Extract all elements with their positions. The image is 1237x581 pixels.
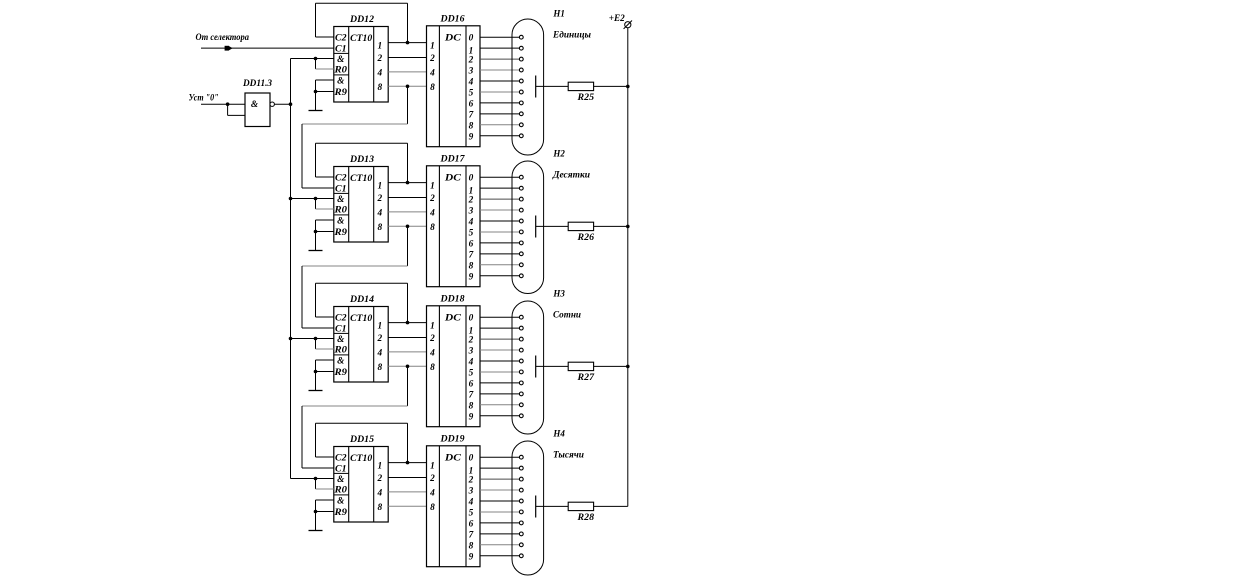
pin labels 1 2 4 8 outputs of DD15 [376, 462, 382, 513]
wire: resistor R27 to +E2 bus [594, 365, 628, 367]
svg-text:Н4: Н4 [552, 430, 565, 440]
wire: carry from DD14 output 8 to C1 of DD15 [302, 366, 408, 468]
pin labels 1 2 4 8 inputs of DD17 [429, 182, 435, 233]
node: junction output 1 of DD13 [406, 181, 410, 185]
label DC of DD18 [444, 314, 462, 324]
svg-text:R28: R28 [576, 513, 594, 523]
wire: tie to second gate input [228, 104, 245, 115]
svg-text:7: 7 [469, 530, 474, 540]
svg-text:4: 4 [376, 348, 382, 358]
svg-text:C1: C1 [335, 325, 347, 335]
svg-text:1: 1 [430, 462, 435, 472]
wire: DD18 output 0 to cathode 0 of Н3 [480, 316, 519, 318]
svg-text:&: & [337, 55, 345, 65]
svg-text:R9: R9 [333, 228, 347, 238]
svg-text:2: 2 [468, 196, 474, 206]
svg-text:1: 1 [377, 42, 382, 52]
svg-text:2: 2 [429, 54, 435, 64]
node: reset bus junction at gate output [289, 102, 293, 106]
wire: DD12 output 1 to DD16 input 1 [388, 42, 426, 44]
indicator tube Н1 label [552, 10, 564, 20]
counter DD13 CT10 body [334, 167, 388, 243]
svg-text:4: 4 [429, 208, 435, 218]
svg-text:Н2: Н2 [552, 150, 565, 160]
pin labels C2 C1 & R0 & R9 of DD13 [333, 174, 347, 239]
svg-text:CT10: CT10 [350, 34, 372, 44]
wire: DD16 output 0 to cathode 0 of Н1 [480, 36, 519, 38]
wire: R9 input of DD13 [316, 231, 334, 233]
svg-text:R9: R9 [333, 508, 347, 518]
svg-text:DC: DC [444, 314, 462, 324]
svg-text:Уст "0": Уст "0" [189, 94, 219, 104]
svg-text:9: 9 [469, 132, 474, 142]
svg-text:&: & [337, 77, 345, 87]
pin: anode bar of Н2 [535, 216, 537, 238]
svg-text:2: 2 [376, 54, 382, 64]
svg-text:CT10: CT10 [350, 314, 372, 324]
svg-text:6: 6 [469, 519, 474, 529]
svg-text:8: 8 [377, 363, 382, 373]
wire: tie to R0 input of DD13 [316, 199, 334, 210]
wire: DD12 output 2 to DD16 input 2 [388, 57, 426, 59]
svg-text:5: 5 [469, 88, 474, 98]
wire: DD15 output 8 to DD19 input 8 [388, 505, 426, 507]
wire: tie to R0 input of DD12 [316, 59, 334, 70]
wire: DD13 output 4 to DD17 input 4 [388, 211, 426, 213]
node: junction output 8 of DD14 [406, 365, 410, 369]
wire: DD13 output 1 feedback loop to C2 [316, 143, 408, 182]
svg-text:8: 8 [377, 83, 382, 93]
label DC of DD19 [444, 454, 462, 464]
svg-text:8: 8 [430, 223, 435, 233]
svg-text:3: 3 [468, 487, 474, 497]
svg-text:R0: R0 [333, 66, 347, 76]
svg-text:&: & [337, 335, 345, 345]
pins: cathodes 0-9 of Н3 [519, 315, 523, 417]
wire: +E2 vertical bus [627, 28, 629, 507]
label DC of DD17 [444, 174, 462, 184]
svg-text:C2: C2 [335, 34, 347, 44]
svg-text:C2: C2 [335, 454, 347, 464]
wire: carry from DD13 output 8 to C1 of DD14 [302, 226, 408, 328]
wire: second & input of DD13 to ground [316, 220, 334, 251]
node: junction output 8 of DD13 [406, 225, 410, 229]
pin: anode bar of Н4 [535, 496, 537, 518]
svg-text:R27: R27 [576, 373, 594, 383]
node: junction output 1 of DD14 [406, 321, 410, 325]
svg-text:8: 8 [377, 223, 382, 233]
svg-text:CT10: CT10 [350, 454, 372, 464]
wire: DD18 output 6 to cathode 6 of Н3 [480, 382, 519, 384]
wire: DD14 output 4 to DD18 input 4 [388, 351, 426, 353]
wire: tie to R0 input of DD14 [316, 339, 334, 350]
svg-text:Единицы: Единицы [552, 30, 592, 41]
wire: DD19 output 8 to cathode 8 of Н4 [480, 544, 519, 546]
pin labels 1 2 4 8 outputs of DD13 [376, 182, 382, 233]
wire: R9 input of DD15 [316, 511, 334, 513]
svg-text:3: 3 [468, 67, 474, 77]
svg-text:9: 9 [469, 272, 474, 282]
wire: DD19 output 0 to cathode 0 of Н4 [480, 456, 519, 458]
svg-text:1: 1 [377, 462, 382, 472]
wire: DD14 output 1 feedback loop to C2 [316, 283, 408, 322]
svg-text:1: 1 [377, 322, 382, 332]
svg-text:0: 0 [469, 34, 474, 44]
wire: DD17 output 4 to cathode 4 of Н2 [480, 220, 519, 222]
wire: resistor R28 to +E2 bus [594, 505, 628, 507]
indicator tube Н2 envelope [512, 161, 544, 294]
counter DD15 CT10 body [334, 447, 388, 523]
gate DD11.3 (NAND body) [245, 93, 274, 127]
svg-text:&: & [337, 217, 345, 227]
indicator tube Н3 envelope [512, 301, 544, 434]
wire: От селектора to C1 of DD12 [201, 47, 334, 49]
svg-text:+Е2: +Е2 [609, 14, 625, 24]
wire: DD17 output 5 to cathode 5 of Н2 [480, 231, 519, 233]
pin labels C2 C1 & R0 & R9 of DD15 [333, 454, 347, 519]
node: junction output 8 of DD12 [406, 85, 410, 89]
wire: DD18 output 3 to cathode 3 of Н3 [480, 349, 519, 351]
svg-text:От селектора: От селектора [196, 33, 250, 43]
svg-text:8: 8 [430, 83, 435, 93]
pin labels C2 C1 & R0 & R9 of DD12 [333, 34, 347, 99]
node: junction output 1 of DD15 [406, 461, 410, 465]
svg-text:DD15: DD15 [349, 435, 374, 445]
svg-text:&: & [337, 497, 345, 507]
node "От селектора" input label [196, 33, 250, 43]
wire: R9 input of DD12 [316, 91, 334, 93]
label digit name Тысячи [553, 451, 584, 461]
svg-text:C2: C2 [335, 174, 347, 184]
indicator tube Н4 label [552, 430, 565, 440]
node +E2 power label [609, 14, 625, 24]
node: junction of tied gate inputs [226, 102, 230, 106]
svg-text:4: 4 [429, 68, 435, 78]
wire: DD15 output 4 to DD19 input 4 [388, 491, 426, 493]
svg-text:4: 4 [468, 78, 474, 88]
svg-text:4: 4 [468, 498, 474, 508]
pin labels 0-9 outputs of DD18 [468, 314, 474, 423]
pin labels 1 2 4 8 inputs of DD19 [429, 462, 435, 513]
svg-text:Десятки: Десятки [552, 171, 590, 181]
svg-text:DD19: DD19 [439, 434, 464, 444]
wire: DD19 output 3 to cathode 3 of Н4 [480, 489, 519, 491]
svg-text:R0: R0 [333, 486, 347, 496]
ground [309, 250, 323, 252]
svg-text:9: 9 [469, 552, 474, 562]
wire: DD19 output 2 to cathode 2 of Н4 [480, 478, 519, 480]
svg-text:2: 2 [376, 334, 382, 344]
wire: DD17 output 3 to cathode 3 of Н2 [480, 209, 519, 211]
label R28 [576, 513, 594, 523]
svg-text:R9: R9 [333, 368, 347, 378]
decoder DD17 DC body [427, 166, 481, 287]
node: tie junction & to R0 of DD12 [314, 57, 318, 61]
pin labels 0-9 outputs of DD19 [468, 454, 474, 563]
wire: DD13 output 2 to DD17 input 2 [388, 197, 426, 199]
wire: DD16 output 2 to cathode 2 of Н1 [480, 58, 519, 60]
pin labels 1 2 4 8 outputs of DD12 [376, 42, 382, 93]
decoder DD18 DC body [427, 306, 481, 427]
pin labels 0-9 outputs of DD17 [468, 174, 474, 283]
svg-text:&: & [337, 475, 345, 485]
label CT10 of DD12 [350, 34, 372, 44]
svg-text:DD11.3: DD11.3 [242, 79, 272, 89]
pins: cathodes 0-9 of Н2 [519, 175, 523, 277]
wire: DD15 output 2 to DD19 input 2 [388, 477, 426, 479]
svg-text:0: 0 [469, 314, 474, 324]
svg-text:R26: R26 [576, 233, 594, 243]
wire: DD12 output 8 to DD16 input 8 [388, 85, 426, 87]
svg-text:5: 5 [469, 508, 474, 518]
wire: vertical reset bus R0 [290, 59, 292, 479]
label R26 [576, 233, 594, 243]
wire: tie to R0 input of DD15 [316, 479, 334, 490]
svg-text:1: 1 [377, 182, 382, 192]
wire: DD19 output 7 to cathode 7 of Н4 [480, 533, 519, 535]
ground [309, 530, 323, 532]
counter DD15 label [349, 435, 374, 445]
svg-text:CT10: CT10 [350, 174, 372, 184]
svg-text:3: 3 [468, 347, 474, 357]
wire: DD18 output 1 to cathode 1 of Н3 [480, 327, 519, 329]
svg-text:Сотни: Сотни [553, 311, 581, 321]
svg-text:6: 6 [469, 239, 474, 249]
wire: DD14 output 8 to DD18 input 8 [388, 365, 426, 367]
pin labels 0-9 outputs of DD16 [468, 34, 474, 143]
wire: DD14 output 1 to DD18 input 1 [388, 322, 426, 324]
pin: DD11.3 inverted output bubble [270, 102, 274, 106]
resistor R25 [568, 82, 593, 90]
wire: DD16 output 7 to cathode 7 of Н1 [480, 113, 519, 115]
ground [309, 110, 323, 112]
wire: DD19 output 6 to cathode 6 of Н4 [480, 522, 519, 524]
label digit name Единицы [552, 30, 592, 41]
wire: carry from DD12 output 8 to C1 of DD13 [302, 86, 408, 188]
svg-text:4: 4 [376, 68, 382, 78]
svg-text:DC: DC [444, 454, 462, 464]
svg-text:4: 4 [429, 348, 435, 358]
svg-text:4: 4 [468, 218, 474, 228]
svg-text:C1: C1 [335, 45, 347, 55]
wire: DD15 output 1 to DD19 input 1 [388, 462, 426, 464]
svg-text:DD13: DD13 [349, 155, 374, 165]
decoder DD16 label [439, 14, 464, 24]
node: tie junction R9 of DD13 [314, 230, 318, 234]
node: tie junction & to R0 of DD15 [314, 477, 318, 481]
svg-text:1: 1 [430, 322, 435, 332]
wire: resistor R25 to +E2 bus [594, 85, 628, 87]
ground [309, 390, 323, 392]
svg-text:DD16: DD16 [439, 14, 464, 24]
svg-text:Тысячи: Тысячи [553, 451, 584, 461]
wire: reset bus to & input of DD14 [291, 338, 334, 340]
resistor R26 [568, 222, 593, 230]
pin labels C2 C1 & R0 & R9 of DD14 [333, 314, 347, 379]
node: +E2 bus junction at R27 [626, 365, 630, 369]
wire: DD18 output 8 to cathode 8 of Н3 [480, 404, 519, 406]
svg-text:7: 7 [469, 110, 474, 120]
wire: second & input of DD15 to ground [316, 500, 334, 531]
svg-text:3: 3 [468, 207, 474, 217]
svg-text:Н3: Н3 [552, 290, 565, 300]
indicator tube Н4 envelope [512, 441, 544, 575]
svg-text:&: & [251, 100, 259, 110]
counter DD14 label [349, 295, 374, 305]
decoder DD18 label [439, 294, 464, 304]
wire: gate DD11.3 output to reset bus [274, 103, 290, 105]
svg-text:8: 8 [469, 121, 474, 131]
node: +E2 bus junction at R26 [626, 225, 630, 229]
svg-text:6: 6 [469, 99, 474, 109]
pins: cathodes 0-9 of Н4 [519, 455, 523, 557]
wire: DD18 output 9 to cathode 9 of Н3 [480, 415, 519, 417]
svg-text:R0: R0 [333, 346, 347, 356]
wire: DD19 output 9 to cathode 9 of Н4 [480, 555, 519, 557]
svg-text:2: 2 [376, 194, 382, 204]
pins: cathodes 0-9 of Н1 [519, 35, 523, 137]
svg-text:DD12: DD12 [349, 15, 374, 25]
svg-text:C2: C2 [335, 314, 347, 324]
svg-text:7: 7 [469, 390, 474, 400]
wire: DD16 output 1 to cathode 1 of Н1 [480, 47, 519, 49]
svg-text:DD14: DD14 [349, 295, 374, 305]
label digit name Сотни [553, 311, 581, 321]
svg-text:0: 0 [469, 174, 474, 184]
svg-text:8: 8 [430, 363, 435, 373]
svg-text:R0: R0 [333, 206, 347, 216]
svg-text:&: & [337, 195, 345, 205]
decoder DD16 DC body [427, 26, 481, 147]
wire: DD16 output 9 to cathode 9 of Н1 [480, 135, 519, 137]
wire: second & input of DD14 to ground [316, 360, 334, 391]
svg-text:2: 2 [429, 334, 435, 344]
wire: DD19 output 5 to cathode 5 of Н4 [480, 511, 519, 513]
svg-text:2: 2 [429, 194, 435, 204]
svg-text:2: 2 [429, 474, 435, 484]
arrow: signal direction on selector line [225, 46, 233, 51]
indicator tube Н3 label [552, 290, 565, 300]
wire: DD19 output 1 to cathode 1 of Н4 [480, 467, 519, 469]
svg-text:4: 4 [376, 488, 382, 498]
svg-text:9: 9 [469, 412, 474, 422]
svg-text:C1: C1 [335, 185, 347, 195]
terminal +E2 [624, 21, 632, 29]
svg-text:5: 5 [469, 228, 474, 238]
svg-text:4: 4 [376, 208, 382, 218]
svg-text:DC: DC [444, 34, 462, 44]
wire: DD12 output 4 to DD16 input 4 [388, 71, 426, 73]
wire: anode of Н1 to resistor R25 [536, 85, 569, 87]
wire: DD19 output 4 to cathode 4 of Н4 [480, 500, 519, 502]
svg-text:4: 4 [429, 488, 435, 498]
svg-text:4: 4 [468, 358, 474, 368]
svg-text:1: 1 [430, 42, 435, 52]
resistor R27 [568, 362, 593, 370]
wire: DD16 output 3 to cathode 3 of Н1 [480, 69, 519, 71]
pin: anode bar of Н1 [535, 76, 537, 98]
label R25 [576, 93, 594, 103]
svg-text:R25: R25 [576, 93, 594, 103]
decoder DD19 DC body [427, 446, 481, 567]
wire: DD14 output 2 to DD18 input 2 [388, 337, 426, 339]
svg-text:2: 2 [468, 56, 474, 66]
wire: anode of Н3 to resistor R27 [536, 365, 569, 367]
wire: DD16 output 6 to cathode 6 of Н1 [480, 102, 519, 104]
wire: DD16 output 8 to cathode 8 of Н1 [480, 124, 519, 126]
indicator tube Н1 envelope [512, 19, 544, 155]
svg-text:2: 2 [468, 336, 474, 346]
node: reset bus junction stage 3 [289, 337, 293, 341]
label DC of DD16 [444, 34, 462, 44]
wire: DD18 output 5 to cathode 5 of Н3 [480, 371, 519, 373]
wire: DD16 output 5 to cathode 5 of Н1 [480, 91, 519, 93]
svg-text:0: 0 [469, 454, 474, 464]
wire: DD18 output 7 to cathode 7 of Н3 [480, 393, 519, 395]
pin: anode bar of Н3 [535, 356, 537, 378]
op-amp gate DD11.3 label [242, 79, 272, 89]
wire: DD17 output 0 to cathode 0 of Н2 [480, 176, 519, 178]
svg-text:1: 1 [430, 182, 435, 192]
wire: DD17 output 8 to cathode 8 of Н2 [480, 264, 519, 266]
pin labels 1 2 4 8 outputs of DD14 [376, 322, 382, 373]
svg-text:8: 8 [469, 401, 474, 411]
wire: reset bus to & input of DD12 [291, 58, 334, 60]
decoder DD19 label [439, 434, 464, 444]
label CT10 of DD13 [350, 174, 372, 184]
wire: R9 input of DD14 [316, 371, 334, 373]
wire: DD17 output 7 to cathode 7 of Н2 [480, 253, 519, 255]
label R27 [576, 373, 594, 383]
svg-text:2: 2 [468, 476, 474, 486]
svg-text:8: 8 [377, 503, 382, 513]
wire: DD16 output 4 to cathode 4 of Н1 [480, 80, 519, 82]
wire: anode of Н4 to resistor R28 [536, 505, 569, 507]
pin labels 1 2 4 8 inputs of DD18 [429, 322, 435, 373]
wire: anode of Н2 to resistor R26 [536, 225, 569, 227]
svg-text:&: & [337, 357, 345, 367]
svg-text:C1: C1 [335, 465, 347, 475]
wire: reset bus to & input of DD15 [291, 478, 334, 480]
wire: DD18 output 2 to cathode 2 of Н3 [480, 338, 519, 340]
svg-text:DD18: DD18 [439, 294, 464, 304]
wire: second & input of DD12 to ground [316, 80, 334, 111]
wire: DD17 output 9 to cathode 9 of Н2 [480, 275, 519, 277]
wire: DD18 output 4 to cathode 4 of Н3 [480, 360, 519, 362]
label CT10 of DD15 [350, 454, 372, 464]
node: reset bus junction stage 2 [289, 197, 293, 201]
svg-text:8: 8 [469, 541, 474, 551]
wire: Уст 0 input to gate DD11.3 [201, 103, 245, 105]
node: junction output 1 of DD12 [406, 41, 410, 45]
node "Уст 0" input label [189, 94, 219, 104]
svg-text:DC: DC [444, 174, 462, 184]
indicator tube Н2 label [552, 150, 565, 160]
node: tie junction & to R0 of DD14 [314, 337, 318, 341]
wire: resistor R26 to +E2 bus [594, 225, 628, 227]
svg-text:7: 7 [469, 250, 474, 260]
wire: DD17 output 6 to cathode 6 of Н2 [480, 242, 519, 244]
wire: DD13 output 1 to DD17 input 1 [388, 182, 426, 184]
svg-text:DD17: DD17 [439, 154, 464, 164]
pin labels 1 2 4 8 inputs of DD16 [429, 42, 435, 93]
wire: DD17 output 2 to cathode 2 of Н2 [480, 198, 519, 200]
node: tie junction & to R0 of DD13 [314, 197, 318, 201]
svg-text:Н1: Н1 [552, 10, 564, 20]
counter DD14 CT10 body [334, 307, 388, 383]
resistor R28 [568, 502, 593, 510]
wire: reset bus to & input of DD13 [291, 198, 334, 200]
